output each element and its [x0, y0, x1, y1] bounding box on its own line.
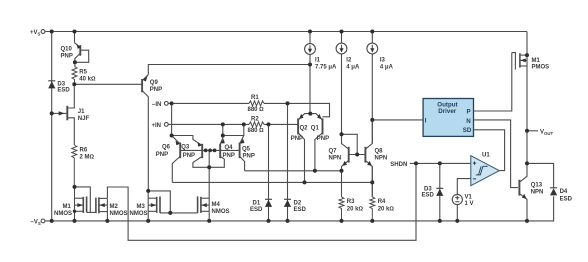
svg-text:880 Ω: 880 Ω: [248, 128, 265, 134]
svg-text:20 kΩ: 20 kΩ: [347, 206, 364, 212]
junction +IN D1: [267, 122, 271, 126]
transistor Q5 PNP: [223, 124, 245, 170]
resistor R2 880: [249, 122, 264, 127]
svg-text:NPN: NPN: [375, 156, 388, 162]
svg-text:R6: R6: [80, 148, 88, 154]
svg-text:PNP: PNP: [291, 136, 303, 142]
svg-text:NMOS: NMOS: [110, 211, 128, 217]
wire P pin to M1 PMOS gate: [474, 53, 512, 111]
svg-text:M1: M1: [63, 204, 72, 210]
transistor M1 PMOS: [512, 53, 527, 131]
junction Q10 emitter: [73, 30, 77, 34]
junction R4 rail: [370, 219, 374, 223]
transistor M3 NMOS diode-connected: [148, 191, 170, 221]
transistor M2 NMOS: [90, 197, 107, 221]
junction M1 source rail: [73, 219, 77, 223]
junction Q10 collector: [73, 60, 77, 64]
svg-text:7.75 μA: 7.75 μA: [315, 64, 337, 70]
transistor Q9 PNP: [142, 75, 148, 191]
junction V1 rail: [455, 219, 459, 223]
junction node B Q7 emitter: [340, 169, 344, 173]
svg-text:D1: D1: [253, 200, 261, 206]
transistor M1 NMOS: [75, 187, 91, 221]
junction -IN D2: [286, 101, 290, 105]
current source I3: [367, 32, 378, 144]
svg-text:+IN: +IN: [152, 123, 162, 129]
junction I1 rail: [308, 30, 312, 34]
arrow M3 body: [151, 203, 156, 207]
resistor R6 2M: [72, 145, 77, 187]
current source I1: [305, 32, 316, 114]
junction M3 gate tie: [168, 211, 172, 215]
wire top +Vs rail: [45, 31, 527, 33]
svg-text:M4: M4: [212, 202, 221, 208]
junction Q7 Q8 bases: [355, 153, 359, 157]
junction left rail: [50, 219, 54, 223]
junction Vout: [525, 129, 529, 133]
junction M4 source rail: [207, 219, 211, 223]
svg-text:NMOS: NMOS: [212, 209, 230, 215]
wire Q9 emitter to I1: [148, 65, 310, 75]
differential pair Q2 Q1 PNP: [298, 114, 322, 183]
svg-text:NPN: NPN: [531, 189, 544, 195]
svg-text:Q1: Q1: [311, 125, 320, 131]
transistor Q4 PNP: [209, 124, 224, 167]
svg-text:D4: D4: [560, 189, 568, 195]
junction D2 rail: [286, 219, 290, 223]
wire quad bases tie: [180, 149, 239, 151]
svg-text:D2: D2: [294, 200, 302, 206]
svg-text:R4: R4: [378, 199, 386, 205]
wire -IN line with R1: [169, 103, 330, 116]
transistor Q6 PNP: [172, 103, 181, 182]
terminal -IN: [164, 102, 168, 106]
wire N pin to Q13 base: [474, 120, 518, 188]
svg-text:–IN: –IN: [152, 102, 161, 108]
transistor Q10 PNP diode-connected: [75, 32, 89, 67]
junction quad bases dots: [204, 149, 217, 153]
junction M3 drain: [146, 189, 150, 193]
svg-text:NJF: NJF: [78, 116, 90, 122]
resistor R3 20k: [339, 197, 344, 221]
svg-text:PNP: PNP: [223, 153, 235, 159]
svg-text:Q10: Q10: [61, 46, 73, 52]
svg-text:NPN: NPN: [329, 156, 342, 162]
svg-text:N: N: [466, 118, 471, 125]
svg-text:Q2: Q2: [300, 125, 309, 131]
junction R3 rail: [340, 219, 344, 223]
arrow I2: [339, 48, 343, 52]
wire Q8 emitter to R4: [371, 167, 373, 197]
svg-text:I1: I1: [315, 57, 321, 63]
junction node A: [207, 165, 211, 169]
wire D4 branch: [527, 163, 554, 188]
svg-text:ESD: ESD: [294, 207, 307, 213]
svg-text:PNP: PNP: [61, 53, 73, 59]
arrow J1 gate: [59, 111, 65, 115]
junction M1 drain: [73, 185, 77, 189]
junction J1 gate: [50, 111, 54, 115]
wire +IN line with R2: [169, 123, 298, 125]
arrow Q13 emitter: [522, 194, 527, 199]
terminal +IN: [164, 123, 168, 127]
junction Q2 collector node C: [303, 180, 307, 184]
diode D3 ESD left: [48, 81, 55, 89]
wire Vout tap: [527, 130, 538, 132]
svg-text:ESD: ESD: [422, 193, 435, 199]
svg-text:Q8: Q8: [375, 149, 384, 155]
hysteresis symbol U1: [476, 166, 488, 175]
svg-text:R5: R5: [79, 70, 87, 76]
junction R5 bottom: [72, 82, 76, 86]
svg-text:VOUT: VOUT: [540, 129, 553, 136]
transistor M4 NMOS: [170, 167, 209, 221]
svg-text:PNP: PNP: [156, 152, 168, 158]
svg-text:4 μA: 4 μA: [346, 64, 360, 70]
junction Q1 collector node B: [313, 169, 317, 173]
current source I2: [336, 32, 347, 135]
junction SHDN D3: [438, 161, 442, 165]
svg-text:4 μA: 4 μA: [380, 64, 394, 70]
svg-text:I2: I2: [346, 57, 352, 63]
arrow I3: [370, 48, 374, 52]
svg-text:PMOS: PMOS: [532, 65, 550, 71]
svg-text:J1: J1: [78, 109, 85, 115]
output driver block: [423, 99, 473, 137]
svg-text:SD: SD: [463, 127, 472, 134]
arrow Q3 emitter: [198, 142, 202, 147]
junction I3 rail: [370, 30, 374, 34]
wire node B Q5/Q1 collectors to Q7 emitter: [245, 170, 342, 172]
wire SHDN to U1: [410, 162, 471, 164]
junction SHDN drop: [414, 161, 418, 165]
svg-text:NMOS: NMOS: [130, 211, 148, 217]
svg-text:PNP: PNP: [317, 136, 329, 142]
svg-text:P: P: [467, 108, 471, 115]
junction D3 rail: [438, 219, 442, 223]
comparator U1: [471, 156, 500, 186]
wire R5 bottom node to Q9 base: [74, 83, 141, 85]
diode D2 ESD: [284, 103, 291, 220]
svg-text:880 Ω: 880 Ω: [248, 107, 265, 113]
junction +IN Q4: [221, 122, 225, 126]
transistor Q13 NPN: [519, 163, 527, 221]
junction +IN Q5: [242, 122, 246, 126]
wire Vout line down: [526, 131, 528, 164]
svg-text:NMOS: NMOS: [54, 211, 72, 217]
wire -Vs bottom rail: [45, 196, 553, 221]
junction Q9 emitter I1: [308, 63, 312, 67]
junction D1 rail: [267, 219, 271, 223]
arrow M4 body: [201, 203, 206, 207]
svg-text:M2: M2: [110, 204, 119, 210]
svg-text:Q13: Q13: [531, 182, 543, 188]
svg-text:ESD: ESD: [57, 87, 70, 93]
arrow M2 body: [99, 203, 104, 207]
wire node C Q6/Q2 collectors to R4 top: [172, 181, 372, 183]
diode D4 ESD: [550, 188, 557, 196]
junction +Vs left: [50, 30, 54, 34]
junction M1 source stub: [73, 210, 76, 213]
arrow I1: [308, 49, 312, 53]
svg-text:Q5: Q5: [242, 146, 251, 152]
svg-text:I3: I3: [380, 57, 386, 63]
svg-text:Q4: Q4: [225, 145, 234, 151]
svg-text:Q6: Q6: [162, 145, 171, 151]
junction M1 PMOS source: [525, 53, 529, 57]
svg-text:I: I: [425, 117, 427, 124]
junction -IN drop: [170, 101, 174, 105]
arrow Q9 emitter: [143, 76, 148, 82]
svg-text:1 V: 1 V: [465, 201, 474, 207]
terminal -Vs: [41, 219, 45, 223]
transistor Q8 NPN: [365, 120, 372, 197]
svg-text:PNP: PNP: [150, 87, 162, 93]
arrow M1 PMOS body: [520, 58, 525, 62]
arrow Q8 emitter: [367, 161, 372, 166]
svg-text:20 kΩ: 20 kΩ: [378, 206, 395, 212]
transistor Q7 NPN: [342, 134, 366, 197]
svg-text:Q7: Q7: [329, 149, 338, 155]
svg-text:M1: M1: [532, 58, 541, 64]
wire M1 PMOS source drop: [526, 32, 528, 56]
junction D4 branch: [525, 161, 529, 165]
svg-text:R3: R3: [347, 199, 355, 205]
arrow Q5 emitter: [240, 139, 245, 144]
label U1 minus: [473, 178, 476, 180]
junction pair tail: [308, 112, 312, 116]
wire bottom feedback line M2 drain to SHDN: [107, 163, 416, 240]
svg-text:PNP: PNP: [243, 153, 255, 159]
svg-text:ESD: ESD: [250, 207, 263, 213]
svg-text:R1: R1: [251, 95, 259, 101]
arrow Q10 emitter: [76, 44, 80, 49]
resistor R1 880: [249, 101, 264, 106]
arrow Q4 emitter: [220, 139, 225, 144]
transistor Q3 PNP: [172, 136, 210, 168]
svg-text:SHDN: SHDN: [390, 162, 407, 168]
svg-text:U1: U1: [482, 153, 490, 159]
svg-text:+VS: +VS: [30, 30, 41, 37]
junction M3 source rail: [146, 219, 150, 223]
svg-text:2 MΩ: 2 MΩ: [80, 155, 95, 161]
svg-text:Driver: Driver: [438, 108, 456, 115]
svg-text:R2: R2: [251, 116, 259, 122]
wire quad bases to node A: [208, 150, 210, 167]
svg-text:40 kΩ: 40 kΩ: [79, 77, 96, 83]
junction quad left emitters: [170, 134, 174, 138]
svg-text:ESD: ESD: [560, 196, 573, 202]
arrow Q7 emitter: [342, 161, 347, 166]
resistor R5 40k: [72, 67, 77, 85]
label U1 plus: [473, 162, 476, 165]
resistor R4 20k: [370, 197, 375, 221]
terminal +Vs: [41, 30, 45, 34]
svg-text:PNP: PNP: [183, 153, 195, 159]
transistor J1 NJF: [52, 84, 75, 145]
junction I2 rail: [340, 30, 344, 34]
svg-text:V1: V1: [465, 195, 473, 201]
wire I input of output driver: [372, 119, 423, 121]
svg-text:M3: M3: [137, 204, 146, 210]
arrow M1 body: [77, 203, 82, 207]
diode D3 ESD shutdown: [436, 163, 443, 221]
wire SD pin to U1 output: [474, 130, 505, 171]
arrow Q2 emitter: [299, 114, 304, 119]
junction M2 source rail: [105, 219, 109, 223]
diode D1 ESD: [265, 124, 272, 220]
junction I3 Q8 collector I pin: [370, 118, 374, 122]
junction node C R4: [370, 180, 374, 184]
svg-text:–VS: –VS: [31, 219, 41, 226]
wire left vertical +Vs to -Vs: [51, 32, 53, 221]
junction Q4 emitter node: [221, 134, 225, 138]
svg-text:Q3: Q3: [181, 144, 190, 150]
voltage source V1 1V: [452, 179, 471, 221]
arrow Q1 emitter: [317, 114, 322, 119]
junction Q7 collector diode tie: [340, 132, 344, 136]
junction Q13 emitter rail: [525, 219, 529, 223]
arrow Q6 emitter: [176, 141, 180, 146]
svg-text:Q9: Q9: [150, 80, 159, 86]
